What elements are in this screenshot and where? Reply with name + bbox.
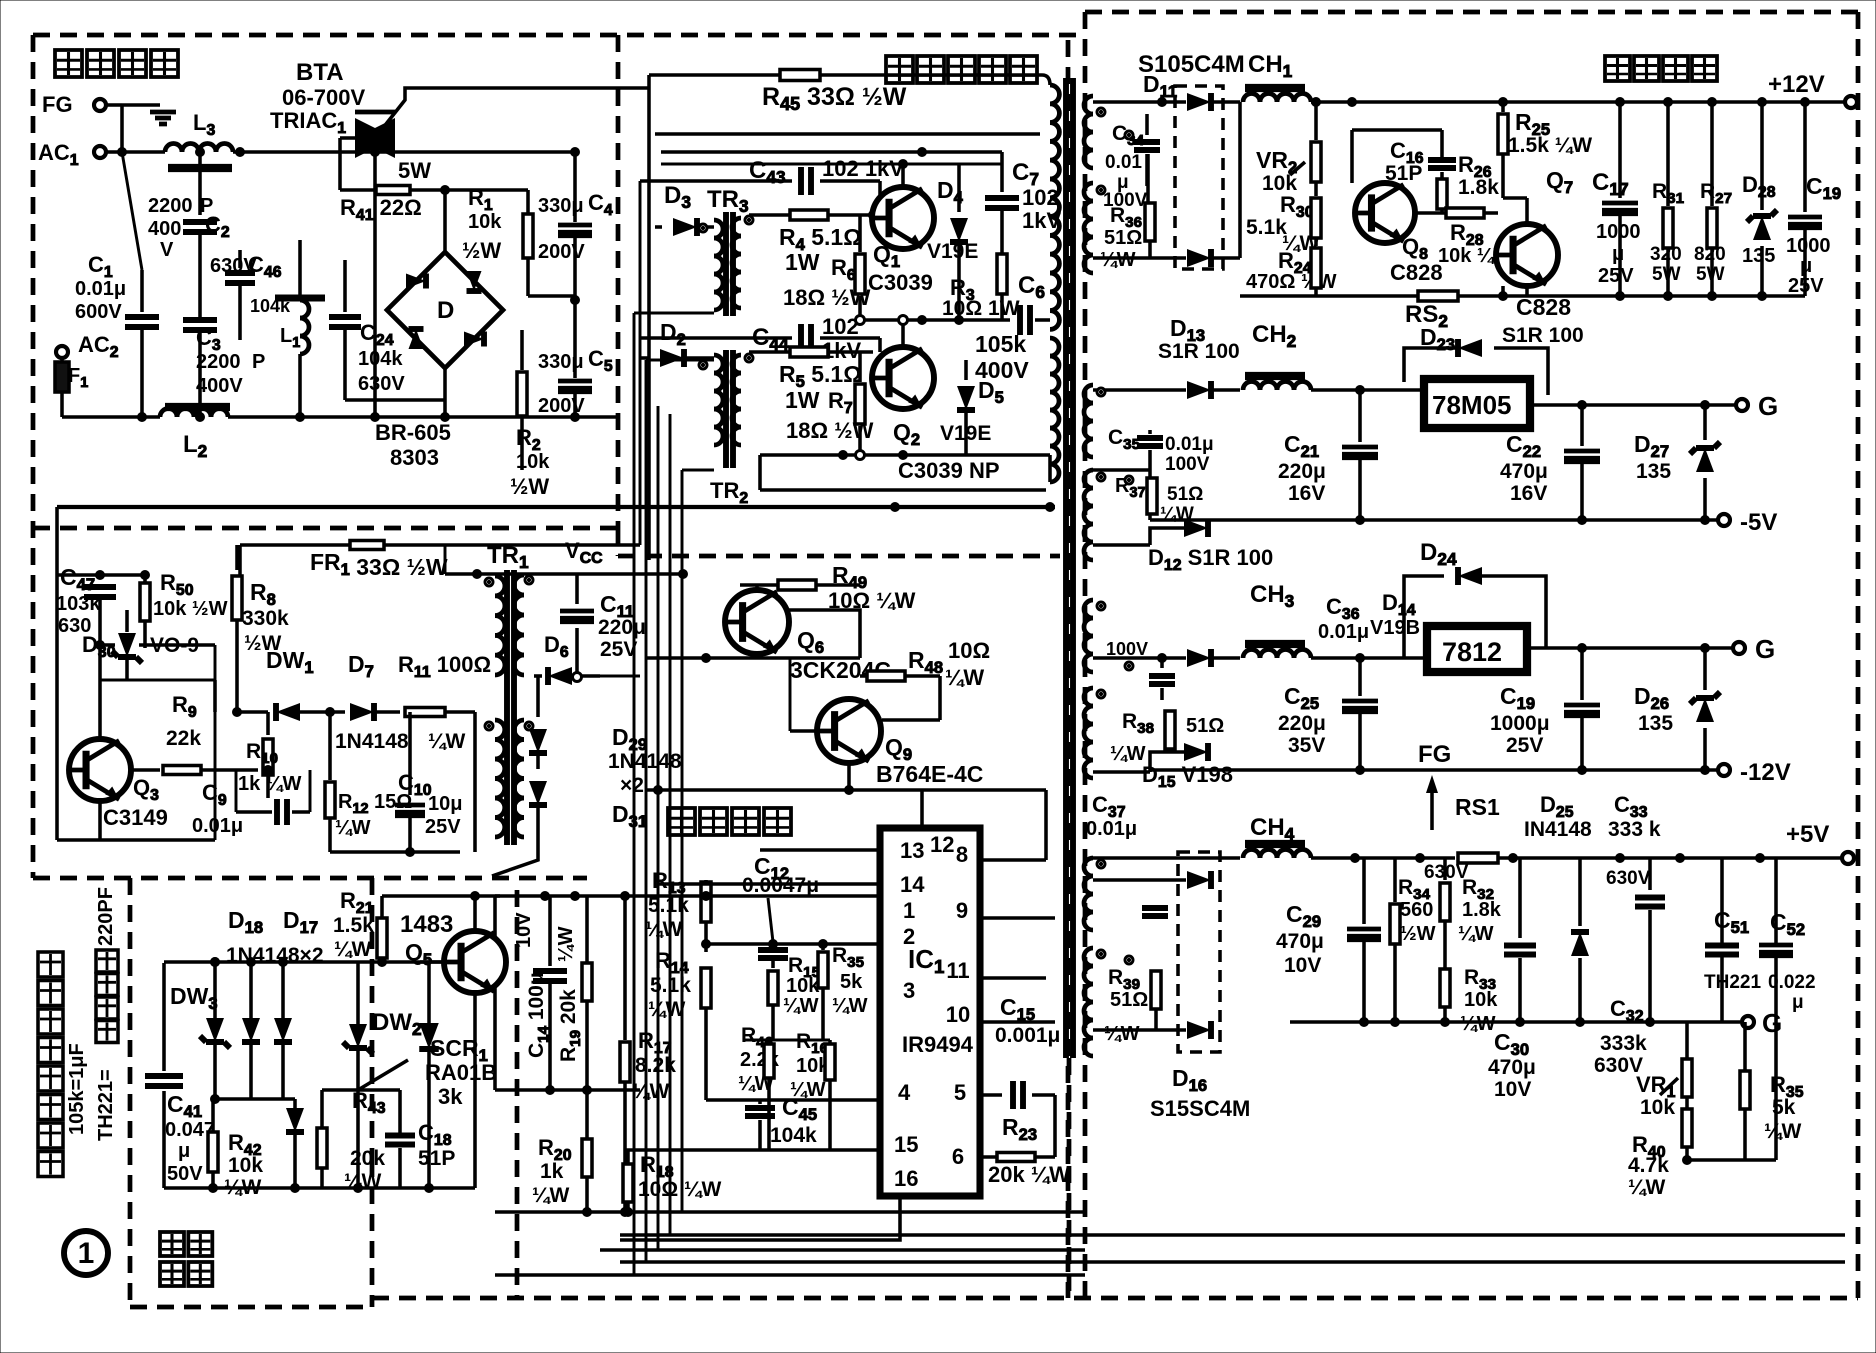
svg-text:135: 135 xyxy=(1636,460,1671,483)
svg-text:¼W: ¼W xyxy=(334,938,372,961)
svg-text:105k: 105k xyxy=(975,331,1026,357)
svg-text:1N4148×2: 1N4148×2 xyxy=(226,944,324,967)
svg-text:IR9494: IR9494 xyxy=(902,1032,974,1057)
svg-text:8: 8 xyxy=(956,842,968,867)
svg-text:16V: 16V xyxy=(1510,482,1547,505)
svg-text:μ: μ xyxy=(1792,992,1804,1013)
svg-text:-5V: -5V xyxy=(1740,509,1777,536)
svg-text:¼W: ¼W xyxy=(945,665,984,690)
svg-text:630V: 630V xyxy=(358,373,405,395)
svg-text:470Ω ½W: 470Ω ½W xyxy=(1246,271,1337,293)
svg-text:½W: ½W xyxy=(510,474,549,499)
svg-text:S15SC4M: S15SC4M xyxy=(1150,1096,1250,1121)
svg-text:μ: μ xyxy=(1800,255,1812,277)
svg-text:100V: 100V xyxy=(1106,639,1148,659)
svg-text:135: 135 xyxy=(1638,712,1673,735)
svg-text:135: 135 xyxy=(1742,245,1775,267)
svg-text:1: 1 xyxy=(78,1237,95,1270)
svg-text:0.001μ: 0.001μ xyxy=(995,1024,1060,1047)
svg-text:22k: 22k xyxy=(166,727,201,750)
svg-text:TH221: TH221 xyxy=(1704,972,1761,993)
svg-text:¼W: ¼W xyxy=(1458,923,1494,945)
svg-text:C3039: C3039 xyxy=(868,270,933,295)
svg-text:¼W: ¼W xyxy=(1100,249,1136,271)
svg-text:BR-605: BR-605 xyxy=(375,420,451,445)
svg-text:6: 6 xyxy=(952,1144,964,1169)
svg-text:C14 100μ: C14 100μ xyxy=(525,972,552,1058)
svg-text:51P: 51P xyxy=(418,1147,455,1170)
svg-text:16V: 16V xyxy=(1288,482,1325,505)
svg-text:25V: 25V xyxy=(1598,265,1634,287)
svg-text:¼W: ¼W xyxy=(648,998,686,1021)
svg-text:5.1k: 5.1k xyxy=(1246,216,1287,239)
svg-text:5.1k: 5.1k xyxy=(650,974,691,997)
svg-text:¼W: ¼W xyxy=(832,995,868,1017)
svg-text:3: 3 xyxy=(903,978,915,1003)
svg-text:½W: ½W xyxy=(1400,923,1436,945)
svg-text:1W: 1W xyxy=(785,387,820,413)
svg-text:10Ω 1W: 10Ω 1W xyxy=(942,297,1020,320)
svg-text:220μ: 220μ xyxy=(1278,712,1326,735)
svg-text:51Ω: 51Ω xyxy=(1104,227,1142,249)
svg-text:333 k: 333 k xyxy=(1608,818,1661,841)
svg-text:μ: μ xyxy=(178,1140,190,1162)
svg-text:5k: 5k xyxy=(1772,1096,1796,1119)
svg-text:51Ω: 51Ω xyxy=(1110,989,1148,1011)
svg-text:TH221=: TH221= xyxy=(95,1069,117,1141)
svg-text:+12V: +12V xyxy=(1768,71,1825,98)
svg-text:10V: 10V xyxy=(1284,954,1321,977)
svg-text:1W: 1W xyxy=(785,249,820,275)
svg-text:C828: C828 xyxy=(1390,260,1443,285)
svg-text:R19 20k: R19 20k xyxy=(557,989,584,1062)
svg-text:C828: C828 xyxy=(1516,294,1571,320)
svg-text:G: G xyxy=(1762,1008,1782,1038)
svg-text:-12V: -12V xyxy=(1740,759,1791,786)
svg-text:V19B: V19B xyxy=(1370,617,1420,639)
svg-text:11: 11 xyxy=(946,958,969,983)
svg-text:¼W: ¼W xyxy=(1460,1013,1496,1035)
svg-text:200V: 200V xyxy=(538,241,585,263)
svg-text:10k: 10k xyxy=(468,211,502,233)
svg-text:1: 1 xyxy=(903,898,915,923)
svg-text:470μ: 470μ xyxy=(1276,930,1324,953)
svg-text:0.01μ: 0.01μ xyxy=(75,278,126,300)
svg-text:BTA: BTA xyxy=(296,59,344,86)
svg-text:C3039 NP: C3039 NP xyxy=(898,458,1000,483)
svg-text:200V: 200V xyxy=(538,395,585,417)
svg-text:1.5k: 1.5k xyxy=(333,914,374,937)
svg-text:RA01B: RA01B xyxy=(425,1060,497,1085)
svg-text:320: 320 xyxy=(1650,244,1682,265)
svg-text:25V: 25V xyxy=(1788,275,1824,297)
svg-text:9: 9 xyxy=(956,898,968,923)
svg-text:25V: 25V xyxy=(425,816,461,838)
svg-text:V19E: V19E xyxy=(940,422,991,445)
svg-text:330k: 330k xyxy=(242,607,289,630)
svg-text:14: 14 xyxy=(900,872,925,897)
svg-text:C3149: C3149 xyxy=(103,805,168,830)
svg-text:¼W: ¼W xyxy=(335,817,371,839)
svg-text:600V: 600V xyxy=(75,301,122,323)
svg-text:100V: 100V xyxy=(1165,454,1210,475)
svg-text:¼W: ¼W xyxy=(645,918,683,941)
svg-text:1.8k: 1.8k xyxy=(1462,899,1502,921)
svg-text:RS1: RS1 xyxy=(1455,794,1500,820)
svg-text:FG: FG xyxy=(1418,741,1451,768)
svg-text:¼W: ¼W xyxy=(783,995,819,1017)
svg-text:FG: FG xyxy=(42,92,73,117)
svg-text:5k: 5k xyxy=(840,971,863,993)
svg-text:5W: 5W xyxy=(1696,264,1725,285)
svg-text:¼W: ¼W xyxy=(555,926,577,962)
svg-text:10Ω ¼W: 10Ω ¼W xyxy=(638,1178,722,1201)
svg-text:0.01μ: 0.01μ xyxy=(1318,621,1369,643)
svg-text:10k ½W: 10k ½W xyxy=(153,598,228,620)
svg-text:10μ: 10μ xyxy=(428,793,462,815)
svg-text:0.01μ: 0.01μ xyxy=(1165,434,1214,455)
svg-text:25V: 25V xyxy=(600,638,637,661)
svg-text:IN4148: IN4148 xyxy=(1524,818,1592,841)
svg-text:1k: 1k xyxy=(540,1160,564,1183)
svg-text:220μ: 220μ xyxy=(1278,460,1326,483)
svg-text:15: 15 xyxy=(894,1132,918,1157)
svg-text:0.01μ: 0.01μ xyxy=(192,815,243,837)
svg-text:10k: 10k xyxy=(228,1154,263,1177)
svg-text:1N4148: 1N4148 xyxy=(335,730,409,753)
svg-text:104k: 104k xyxy=(770,1124,817,1147)
svg-text:2200: 2200 xyxy=(148,195,193,217)
svg-text:10Ω: 10Ω xyxy=(948,638,990,663)
svg-text:8303: 8303 xyxy=(390,445,439,470)
svg-text:¼W: ¼W xyxy=(1628,1176,1666,1199)
svg-text:¼W: ¼W xyxy=(1110,743,1146,765)
svg-text:1k ¼W: 1k ¼W xyxy=(238,773,301,795)
svg-text:¼W: ¼W xyxy=(344,1170,382,1193)
svg-text:0.0047μ: 0.0047μ xyxy=(742,874,819,897)
svg-text:35V: 35V xyxy=(1288,734,1325,757)
svg-text:0.01: 0.01 xyxy=(1105,152,1142,173)
svg-text:13: 13 xyxy=(900,838,924,863)
svg-text:78M05: 78M05 xyxy=(1432,390,1512,420)
svg-text:20k: 20k xyxy=(350,1147,385,1170)
svg-text:400: 400 xyxy=(148,218,181,240)
svg-text:3k: 3k xyxy=(438,1084,463,1109)
svg-text:5: 5 xyxy=(954,1080,966,1105)
svg-text:TRIAC1: TRIAC1 xyxy=(270,108,346,137)
svg-text:1N4148: 1N4148 xyxy=(608,750,682,773)
svg-text:¼W: ¼W xyxy=(532,1184,570,1207)
svg-text:1000μ: 1000μ xyxy=(1490,712,1550,735)
svg-text:G: G xyxy=(1758,391,1778,421)
svg-text:4.7k: 4.7k xyxy=(1628,1154,1669,1177)
svg-text:20k ¼W: 20k ¼W xyxy=(988,1162,1070,1187)
svg-text:102: 102 xyxy=(1022,185,1059,210)
svg-text:R11 100Ω: R11 100Ω xyxy=(398,652,491,681)
svg-text:12: 12 xyxy=(930,832,954,857)
svg-text:D15 V198: D15 V198 xyxy=(1142,762,1233,791)
svg-text:1.5k ¼W: 1.5k ¼W xyxy=(1508,134,1592,157)
svg-text:51Ω: 51Ω xyxy=(1167,484,1203,505)
svg-text:470μ: 470μ xyxy=(1488,1056,1536,1079)
svg-text:5W: 5W xyxy=(398,158,431,183)
svg-text:D: D xyxy=(437,297,454,324)
svg-text:1.8k: 1.8k xyxy=(1458,176,1499,199)
svg-text:4: 4 xyxy=(898,1080,911,1105)
svg-text:0.01μ: 0.01μ xyxy=(1086,818,1137,840)
svg-text:8.2k: 8.2k xyxy=(635,1054,676,1077)
svg-text:B764E-4C: B764E-4C xyxy=(876,761,983,787)
svg-text:06-700V: 06-700V xyxy=(282,85,366,110)
svg-text:μ: μ xyxy=(1612,243,1624,265)
svg-text:1483: 1483 xyxy=(400,911,453,938)
svg-text:105k=1μF: 105k=1μF xyxy=(66,1043,88,1135)
svg-text:51Ω: 51Ω xyxy=(1186,715,1224,737)
svg-text:¼W: ¼W xyxy=(1104,1023,1140,1045)
svg-text:2200: 2200 xyxy=(196,351,241,373)
svg-text:16: 16 xyxy=(894,1166,918,1191)
svg-text:10: 10 xyxy=(946,1002,970,1027)
svg-text:102 1kV: 102 1kV xyxy=(822,156,904,181)
svg-text:½W: ½W xyxy=(462,238,501,263)
svg-text:10k: 10k xyxy=(516,451,550,473)
svg-text:10k: 10k xyxy=(1464,989,1498,1011)
svg-text:1000: 1000 xyxy=(1596,221,1641,243)
svg-text:7812: 7812 xyxy=(1442,637,1502,667)
svg-text:G: G xyxy=(1755,634,1775,664)
svg-text:400V: 400V xyxy=(196,375,243,397)
svg-text:R41 22Ω: R41 22Ω xyxy=(340,195,422,224)
svg-text:333k: 333k xyxy=(1600,1032,1647,1055)
svg-text:630V: 630V xyxy=(1606,868,1651,889)
svg-text:10V: 10V xyxy=(513,912,535,948)
svg-text:820: 820 xyxy=(1694,244,1726,265)
svg-text:5W: 5W xyxy=(1652,264,1681,285)
svg-text:10V: 10V xyxy=(1494,1078,1531,1101)
svg-text:¼W: ¼W xyxy=(428,730,466,753)
svg-text:102: 102 xyxy=(822,314,859,339)
svg-text:×2: ×2 xyxy=(620,774,644,797)
svg-text:¼W: ¼W xyxy=(1764,1120,1802,1143)
svg-text:P: P xyxy=(252,351,265,373)
svg-text:V: V xyxy=(160,239,174,261)
svg-text:10k: 10k xyxy=(786,975,820,997)
svg-text:V19E: V19E xyxy=(927,240,978,263)
svg-text:10k: 10k xyxy=(1640,1096,1675,1119)
svg-text:S1R 100: S1R 100 xyxy=(1502,324,1584,347)
svg-text:S1R 100: S1R 100 xyxy=(1158,340,1240,363)
svg-text:470μ: 470μ xyxy=(1500,460,1548,483)
svg-text:50V: 50V xyxy=(167,1163,203,1185)
svg-text:1000: 1000 xyxy=(1786,235,1831,257)
svg-text:220PF: 220PF xyxy=(95,887,117,946)
svg-text:1kV: 1kV xyxy=(1022,208,1061,233)
svg-text:+5V: +5V xyxy=(1786,821,1829,848)
svg-text:220μ: 220μ xyxy=(598,616,646,639)
svg-text:560: 560 xyxy=(1400,899,1433,921)
svg-text:25V: 25V xyxy=(1506,734,1543,757)
svg-text:104k: 104k xyxy=(358,348,403,370)
